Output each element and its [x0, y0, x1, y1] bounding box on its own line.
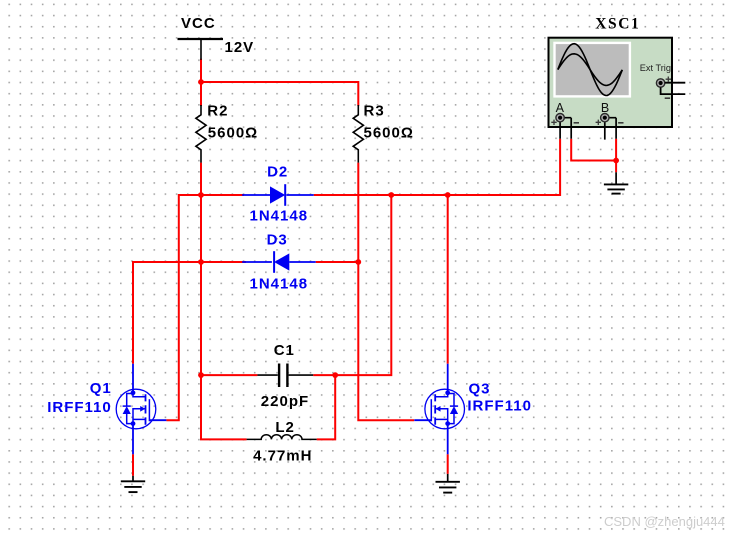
resistor R2	[196, 102, 258, 162]
wire D2 node down to C1 right rail	[313, 195, 391, 375]
svg-text:VCC: VCC	[181, 15, 216, 32]
svg-text:L2: L2	[275, 419, 295, 436]
wire D2 row right section to scope A+	[314, 139, 560, 195]
wire C1 right node down to L2 right	[317, 375, 336, 439]
wire C1 left lead	[201, 374, 257, 376]
wire scope A- down to ground node	[571, 139, 616, 161]
svg-text:D3: D3	[267, 232, 288, 249]
node C1 right junction	[332, 372, 338, 378]
scope trace channel A	[558, 44, 623, 96]
capacitor C1	[257, 342, 313, 410]
scope terminal B	[596, 114, 624, 140]
resistor R3	[353, 102, 414, 162]
svg-text:5600Ω: 5600Ω	[208, 124, 258, 141]
node R2/D2 junction	[198, 192, 204, 198]
node D2 right junction 1	[388, 192, 394, 198]
scope trace channel B	[558, 54, 623, 86]
wire Q1 source to ground	[132, 454, 134, 476]
wire R2 bottom to D2 row node	[200, 163, 202, 195]
wire R3 bottom through D2 row down to D3 node	[357, 163, 359, 262]
ground under Q1	[121, 476, 145, 492]
node VCC junction	[198, 79, 204, 85]
wire scope B- down to ground	[615, 139, 617, 173]
svg-text:IRFF110: IRFF110	[47, 399, 112, 416]
scope terminal A	[551, 114, 579, 139]
svg-text:R2: R2	[207, 102, 228, 119]
svg-text:Q3: Q3	[469, 381, 491, 398]
wire Q3 source to ground	[447, 454, 449, 474]
svg-text:4.77mH: 4.77mH	[253, 447, 312, 464]
svg-text:12V: 12V	[225, 39, 255, 56]
scope terminal Ext Trig	[656, 77, 685, 99]
diode D3	[242, 232, 316, 293]
svg-text:D2: D2	[267, 164, 288, 181]
svg-text:1N4148: 1N4148	[250, 207, 309, 224]
inductor L2	[247, 419, 317, 464]
transistor Q3 (IRFF110, gate left)	[414, 364, 464, 455]
ground under Q3	[436, 474, 460, 493]
svg-text:5600Ω: 5600Ω	[364, 124, 414, 141]
svg-text:1N4148: 1N4148	[250, 276, 309, 293]
wire VCC node rail down left column through D3 C1 to L2	[201, 195, 247, 439]
node D3 left junction	[198, 259, 204, 265]
svg-text:CSDN @zhengju444: CSDN @zhengju444	[604, 514, 725, 529]
wire D2 row left end down to Q1 gate corner	[166, 195, 244, 420]
node scope ground junction	[613, 158, 619, 164]
ground under scope	[604, 172, 628, 193]
svg-text:IRFF110: IRFF110	[467, 397, 532, 414]
svg-text:XSC1: XSC1	[595, 16, 640, 33]
wire D2 node down to Q3 drain	[447, 195, 449, 364]
svg-text:B: B	[601, 101, 609, 115]
svg-text:C1: C1	[274, 342, 295, 359]
svg-text:A: A	[556, 101, 565, 115]
node D3 right junction	[355, 259, 361, 265]
diode D2	[242, 164, 314, 225]
svg-text:R3: R3	[364, 102, 385, 119]
power VCC symbol	[178, 15, 255, 60]
wire D3 node down to Q3 gate	[358, 262, 414, 420]
transistor Q1 (IRFF110, mirrored, gate right)	[116, 364, 166, 455]
node D2 right junction 2	[445, 192, 451, 198]
svg-text:Q1: Q1	[90, 380, 112, 397]
wire VCC rail top horizontal	[201, 60, 358, 105]
oscilloscope XSC1 body	[549, 38, 673, 127]
wire Q1 drain up to D3 row left	[133, 262, 246, 364]
svg-text:Ext Trig: Ext Trig	[640, 63, 671, 73]
wire D3 right lead to D3 node	[316, 261, 359, 263]
svg-text:220pF: 220pF	[261, 393, 309, 410]
node C1 left junction	[198, 372, 204, 378]
